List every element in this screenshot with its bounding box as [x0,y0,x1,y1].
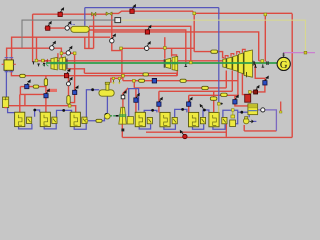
check valve on main steam [106,12,112,16]
wire main steam right downcomer [291,14,293,138]
wire HP1 exhaust stub [68,69,85,74]
node black dot condenser inlet [240,111,243,114]
wire steam jog to LP capsule [194,13,211,51]
wire left cluster link vertical [19,87,21,95]
feedwater heater H2 [40,112,50,126]
node yellow dot drum header [60,52,63,55]
wire blue S6 to H7 chain [203,110,209,117]
wire blue U under H3 [74,124,86,129]
black tee marks under dots [32,62,45,67]
red pipe ends at shaft [259,60,266,62]
wire blue U under H2 [44,124,56,129]
wire green shaft [46,62,277,64]
node black dot chain S2-H3 [62,109,65,112]
wire condensate pump leg [243,125,245,131]
relief widget A [112,77,115,84]
LP stage separators [226,53,243,75]
wire S7 drain drop [225,118,227,137]
wire bottom header y132.2 [146,131,226,133]
wire HP2 blockB exhaust to band [176,71,178,76]
blue valve BVa H2 riser [44,89,50,98]
wire capsule end drop x88.9 [88,27,90,48]
LP exhaust hood marks [246,72,248,77]
LP turbine stage 1 [223,59,226,68]
tiny bowtie valves on shaft line [44,59,48,64]
white valve WV2 [110,33,116,43]
node yellow dot on shaft at IP [189,61,192,64]
green marks under bowties [43,64,49,66]
wire bottom drain header [122,136,292,138]
generator terminal squiggle [282,53,284,58]
node yellow dot shaft left b [42,59,45,62]
wire blue S1 to H2 chain [35,110,40,117]
wire extraction L1 y87.9 [134,87,226,89]
wire blue GSC to H1 [8,108,16,113]
wire purple condensate line [258,110,277,131]
wire vertical x121.9 from dot y48 [121,48,123,78]
wire blue arch over deaerator line [129,89,139,117]
black tee at IP shaft [185,64,188,67]
wire deaerator dome stub y78.3 [111,78,122,82]
red drain valve bottom [180,130,187,139]
wire blue U under H1 [19,124,32,129]
red valve RV1 reheat band [64,68,70,77]
wire U loop left leg [85,37,94,48]
deaerator dome riser [106,84,109,90]
vent pipe near condenser [280,102,282,112]
red valve RVb top-left [46,21,52,30]
heater H6 drain cooler S6 [200,117,205,123]
wire blue drop to long capsule [84,8,86,26]
heater H5 drain cooler S5 [172,117,177,123]
node yellow dot HP1 right [73,52,76,55]
node black dot chain S1-H2 [33,109,36,112]
steam drum [2,58,16,72]
olive valve near x93 [92,12,96,16]
wire extraction L2 y91.3 [159,90,232,92]
wire blue deaerator left leg [86,90,99,121]
node yellow dot signal corner [304,51,307,54]
blue valve BV4 [134,93,140,103]
heater H3 drain cooler S3 [82,117,87,123]
heater H7 drain cooler S7 [222,117,227,123]
wire gray setpoint line [22,20,115,48]
wire diagonal to white valve [123,88,128,95]
white valve WV1 [67,77,73,86]
wire top line La y26.3 [89,26,191,62]
wire HP admission y48.3 [121,47,194,49]
node shaft yellow dot [261,60,264,63]
wire blue hotwell to pump [248,115,250,118]
heater H1 drain cooler S1 [27,117,32,123]
wire H5 riser lower [158,106,160,112]
condensate pump P1 [105,113,111,119]
white valve WVd pump-turbine feed [121,90,127,99]
sensor capsule pump suction [96,119,102,122]
wire blue pump suction y120.8 [86,118,104,121]
wire blue condenser inlet [238,111,248,113]
wire HP2 blockA inlet from y33... [164,37,166,59]
wire HP1 block2 inlet [60,53,62,57]
pump turbine condenser box [127,117,133,124]
wire blue U under H6 [193,124,204,129]
wire H1 riser [19,94,21,112]
LP turbine stage 5 [244,50,252,77]
wire top line Lc y33 [94,32,259,61]
LP inter-stage jumpers [225,49,245,58]
wire blue S5 to H6 chain [175,109,187,117]
blue valve BV7 [233,95,239,105]
wire HP2 blockB inlet vertical [171,48,173,56]
blue valve BV8 [263,76,269,86]
wire steam branch to WV2 [111,14,113,38]
IP turbine block A [166,58,171,68]
white valve WV3 [65,21,71,30]
LP turbine stage 2 [227,57,232,69]
node yellow dot IP admission [164,47,167,50]
wire blue stub near relief box [236,112,238,124]
sensor capsule top band [143,73,149,76]
wire vertical x36.5 to dot [36,37,38,60]
sensor capsule H2 riser [44,79,47,86]
wire blue long drop x218.8 [218,8,220,103]
wire left cluster y94.4 [20,93,46,95]
wire yellow signal line top [121,20,306,53]
sensor capsule on drum outlet [20,74,26,77]
blue valve BV6 [187,97,193,107]
sensor capsule IP line [180,79,186,82]
feedwater heater H5 [160,112,170,126]
wire feedwater line y28 [45,27,71,29]
dark valve near condenser [254,85,260,94]
wire blue pump discharge stub [253,120,257,122]
LP turbine stage 3 [233,55,238,71]
sensor capsule LP admission [211,50,218,53]
node yellow dot admission [120,47,123,50]
white valve WV4 on admission line [145,41,151,51]
HP turbine block 2 [59,57,65,70]
deaerator tank [99,90,114,96]
wire blue deaerator downcomer to pump [106,96,108,113]
white valve WVA [50,41,56,51]
wire blue control top band [85,7,219,9]
wire drum right riser [12,37,111,60]
wire H4 riser lower [135,102,137,112]
HP turbine block 1 [51,57,57,70]
flow sensor dot on PT exhaust [121,129,124,132]
feedwater heater H3 [70,112,80,126]
wire blue chain to H5 [144,110,157,116]
ticks near control end [221,103,223,105]
wire drum left riser [7,48,62,60]
wire green dash shaft pump-turbine [110,115,115,117]
wire H6 riser upper [188,95,190,102]
wire blue U under H5 [164,124,176,129]
feedwater heater H4 [135,112,145,126]
IP bearing tick [163,59,165,67]
condenser steam box [245,94,251,102]
white converter box on signal line [115,18,121,23]
sensor capsule on deaerator feed [139,79,145,82]
wire HP shaft-level line y60.8 [36,60,222,62]
wire main steam after check valve [112,11,292,13]
node yellow dot bypass corner [249,91,252,94]
wire H2 riser [45,76,47,113]
wire left drain x24.9 [24,94,26,105]
node yellow dot extraction header [133,79,136,82]
wire top line Lb y30 [89,30,186,62]
node yellow dot pump suction corner [85,120,87,122]
feedwater heater H7 [209,112,219,126]
wire H4 riser upper [135,88,137,98]
blue valve BVb drop [73,85,79,94]
node yellow dot reheat band [122,74,125,77]
wire condensate bottom y130.9 [244,130,276,132]
wire BV8 outlet to condenser [250,85,265,94]
wire H5 riser upper [158,91,160,102]
wire LP capsule to first stage [218,52,225,58]
sensor capsule H7 riser [210,97,217,100]
wire LP extraction V1 [225,71,227,88]
wire H7 riser [213,91,215,112]
heater H4 drain cooler S4 [147,117,152,123]
blue block BSt on extraction header [152,78,156,83]
sensor capsule left cluster [33,85,39,88]
wire left small cluster y86.6 [20,86,46,88]
wire blue drum left downcomer [5,70,7,97]
wire HP1 gap inlet [57,53,59,58]
node yellow dot shaft left a [35,59,38,62]
wire magenta generator line [284,52,315,54]
wire extraction L2 V2 [231,71,233,92]
feedwater heater H1 [15,112,25,126]
red valve RVc mid line [145,25,151,34]
HP1 shaft bearing tick [66,59,68,70]
wire vertical from steam corner x32.6 [32,14,34,61]
shaft end couplings [253,61,268,66]
wire LP exhaust to condenser [242,72,244,95]
wire LP end bypass down [255,62,265,80]
wire HP2 right verticals to shaft [186,61,191,63]
node yellow dot blue control end [218,102,221,105]
node yellow dot drain header [68,104,71,107]
long pipe capsule top-left [71,23,90,32]
wire white valve WV2 drop and elbow [112,43,121,51]
sensor capsule L1 [202,86,209,89]
wire drain header y105.7 [9,106,76,113]
pump turbine [119,107,127,124]
wire pump turbine exhaust [121,124,123,137]
GSC cooler box [3,97,9,108]
wire check valve branch down x93.6 [93,14,95,48]
pump P2 arrow [250,120,253,123]
wire H3 riser [68,76,70,106]
wire HP1 header y53 [61,52,76,54]
condensate pump P2 [243,117,249,124]
wire extraction L3 y95.3 [189,94,238,96]
generator G [277,57,290,71]
wire reheat band lower y76.2 [11,70,177,76]
heater H2 drain cooler S2 [52,117,57,123]
wire dome line down from dot 133.8 [133,81,135,88]
feedwater heater H6 [189,112,199,126]
relief widget B [118,77,121,84]
node black dot deaerator blue line [91,88,94,91]
wire blue S7 to condenser chain [223,110,238,117]
deaerator dome cap [105,82,109,84]
svg-text:G: G [280,60,288,71]
wire long vertical x265 from steam dot [264,14,266,61]
node black dot chain S5-H6 [181,108,184,111]
LP turbine stage 4 [238,53,243,74]
white valve WVB [66,46,72,56]
blue valve BSl left cluster [25,79,31,88]
wire blue U under H4 [139,124,150,129]
node yellow dot steam jog [193,12,196,15]
thick red stub under HP1 [46,89,57,92]
node black dot chain S6-H7 with flag [200,104,206,112]
relief assembly near condenser [230,109,236,127]
wire BV7 drop to condenser [235,95,248,106]
red valve RVb2 on main steam [130,4,136,13]
node yellow dot steam right [264,13,267,16]
wire blue U under H7 [213,124,225,129]
wire main steam line top [33,13,106,15]
wire BVb outlet elbow [70,95,75,103]
red valve RVa main steam [58,7,64,16]
sensor capsule H3 riser [67,96,70,105]
IP turbine block B [172,56,178,70]
wire H6 riser lower [188,106,190,112]
sensor capsule L3 [221,93,228,96]
wire HP2 blockB jumper [172,55,177,57]
wire extraction header y80.7 [123,80,238,82]
wire blue S2 to H3 chain [57,110,72,116]
wire extraction L3 V3 [237,71,239,96]
wire white valve to pump turbine [122,99,124,107]
wire branch down to blue valve BVb [74,53,76,90]
wire branch band to y80.7 [122,76,124,81]
wire reheat band upper y72.9 [84,73,176,75]
control signal into H7 [218,104,220,113]
condenser hotwell tank [248,104,258,115]
white sensor on condensate line [261,108,265,112]
node black dot chain to H5 [151,109,154,112]
shaft arrow into pump turbine [116,115,119,117]
shaft hanging tees [254,64,264,67]
blue valve BV5 [157,97,163,107]
